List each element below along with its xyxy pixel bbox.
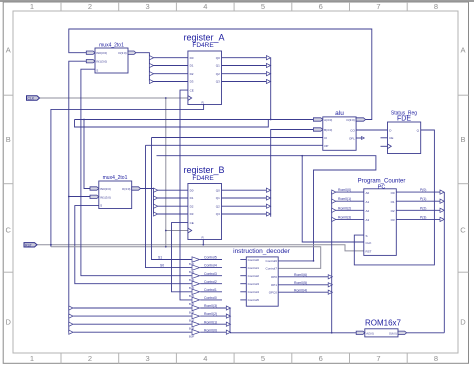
bus tap register_A D1 (149, 63, 153, 67)
wire register_A Q1 (222, 65, 267, 67)
wire Sw bit line 0 (73, 307, 191, 309)
bus tap Sw line0 (69, 306, 73, 310)
wire register_A D3 (153, 81, 188, 83)
bus tap register_A D3 (149, 79, 153, 83)
svg-text:4: 4 (203, 2, 207, 11)
wire register_A D1 (153, 65, 188, 67)
svg-text:OFL: OFL (349, 137, 355, 141)
register_B FD4RE (183, 165, 224, 240)
svg-text:CLK: CLK (28, 97, 35, 101)
wire BUF2 feed (146, 145, 192, 267)
bus tap ROM A (356, 331, 365, 334)
svg-text:CE: CE (389, 136, 393, 140)
svg-text:IN0(3:0): IN0(3:0) (100, 187, 111, 191)
svg-text:Rom0(6): Rom0(6) (294, 273, 307, 277)
buffer BUF4 (189, 281, 200, 290)
svg-text:OP0: OP0 (271, 275, 277, 279)
svg-text:O1: O1 (391, 200, 395, 204)
svg-text:CI: CI (324, 136, 327, 140)
ROM16x7 U5 (365, 319, 402, 337)
svg-text:D1: D1 (190, 196, 194, 200)
svg-text:A0: A0 (366, 191, 370, 195)
wire Status_Reg Q to PC load loop (354, 130, 434, 265)
net tap PC P(3) (440, 217, 444, 221)
svg-text:C: C (5, 226, 11, 235)
svg-text:S: S (100, 203, 102, 207)
bus tap register_B D2 (154, 204, 158, 208)
wire register_A D2 (153, 73, 188, 75)
bus tap register_B D0 (154, 188, 158, 192)
svg-text:5: 5 (261, 354, 265, 363)
wire CLK branch to register_B C pin (166, 230, 188, 232)
wire RST net from port to PC RST (37, 245, 364, 251)
Status_Reg FDE (388, 111, 421, 154)
svg-text:Control2: Control2 (248, 274, 260, 278)
svg-text:Rom0(1): Rom0(1) (204, 320, 217, 324)
bus tap mux U2 O (132, 187, 141, 190)
svg-text:1: 1 (30, 2, 34, 11)
bus tap mux U2 IN1 (90, 195, 99, 198)
svg-text:CLK: CLK (366, 241, 372, 245)
svg-text:CE: CE (190, 221, 194, 225)
wire decoder OP0 out (278, 276, 328, 278)
wire register_A Q2 (222, 73, 267, 75)
svg-text:O3: O3 (391, 218, 395, 222)
svg-text:C: C (460, 226, 466, 235)
wire A bus to alu A and mux_B IN0 (75, 119, 314, 121)
net label PC Rom inputs (338, 188, 351, 219)
wire register_B R to RST net (202, 240, 204, 245)
bus tap alu A (313, 118, 322, 121)
svg-text:FD4RE: FD4RE (192, 42, 214, 49)
svg-text:ROM16x7: ROM16x7 (365, 319, 402, 328)
svg-text:mux4_2to1: mux4_2to1 (103, 175, 128, 181)
wire BUF10 out Rom0(0) (200, 331, 226, 333)
svg-text:Q1: Q1 (216, 196, 220, 200)
wire ROM data bus vertical (331, 192, 333, 333)
svg-text:P(2): P(2) (420, 206, 426, 210)
svg-text:P(1): P(1) (420, 197, 426, 201)
wire register_B D1 (158, 197, 188, 199)
buffer BUF10 (189, 330, 200, 339)
svg-text:D: D (460, 318, 466, 327)
wire PC address bus to ROM (443, 192, 445, 333)
bus tap register_B Q3 (266, 212, 270, 216)
wire PC P(3) output (396, 218, 440, 220)
wire ROM input horizontal (230, 332, 356, 334)
svg-text:RST: RST (25, 243, 32, 247)
svg-text:CE: CE (190, 88, 194, 92)
svg-text:B(3:0): B(3:0) (324, 128, 332, 132)
wire Sw bit line 3 (73, 331, 191, 333)
wire Status_Reg CE stub (381, 137, 388, 139)
svg-text:O(3:0): O(3:0) (118, 51, 127, 55)
net label decoder OP outputs (294, 273, 307, 292)
wire CLK net horizontal (39, 97, 188, 99)
svg-text:D: D (5, 318, 11, 327)
register_A FD4RE (183, 33, 224, 105)
wire CLK branch to PC CLK and decoder (157, 156, 376, 261)
wire register_B Q0 (222, 189, 267, 191)
svg-text:A1: A1 (366, 200, 370, 204)
wire alu pin3 control (152, 137, 323, 139)
svg-text:FDE: FDE (397, 116, 411, 123)
buffer BUF8 (189, 313, 200, 322)
wire alu O feedback to mux_A IN0 (69, 29, 372, 120)
wire PC Rom(0) input (336, 191, 364, 193)
port CLK (27, 96, 40, 101)
svg-text:FD4RE: FD4RE (192, 175, 214, 182)
wire mux_A output bus to register_A D bus (136, 53, 150, 82)
wire register_A CE feed from BUF6 net (180, 90, 192, 300)
bus tap register_A Q3 (266, 79, 270, 83)
svg-text:Control6: Control6 (266, 259, 278, 263)
svg-text:2: 2 (88, 2, 92, 11)
svg-text:Control3: Control3 (248, 282, 260, 286)
wire mux_B IN1 from Sw bus (69, 196, 90, 198)
port RST (24, 243, 37, 248)
svg-text:O(6:0): O(6:0) (389, 332, 397, 336)
svg-text:A(3:0): A(3:0) (366, 332, 374, 336)
net label PC P outputs (420, 188, 426, 219)
wire CLK drop to PC CLK (302, 156, 364, 242)
wire BUF8 out Rom0(2) (200, 315, 226, 317)
bus tap Sw line2 (69, 322, 73, 326)
bus tap alu B (313, 128, 322, 131)
wire gray run to decoder pin2 (51, 247, 321, 269)
svg-text:6: 6 (319, 354, 323, 363)
svg-text:3: 3 (146, 2, 150, 11)
buffer BUF3 (189, 273, 200, 282)
svg-text:Control5: Control5 (248, 298, 260, 302)
instruction_decoder U4 (233, 248, 291, 306)
net tap Rom0(0) (226, 330, 230, 334)
wire register_A Q3 (222, 81, 267, 83)
svg-text:D0: D0 (190, 56, 194, 60)
Program_Counter PC (358, 179, 406, 256)
net tap Rom0(1) (226, 322, 230, 326)
svg-text:3: 3 (146, 354, 150, 363)
svg-text:S0: S0 (160, 263, 164, 267)
bus tap mux U1 IN0 (86, 51, 95, 54)
buffer BUF1 (189, 257, 200, 266)
wire BUF6 out Control0 (200, 299, 222, 301)
svg-text:PC: PC (378, 184, 386, 190)
wire PC P(0) output (396, 191, 440, 193)
svg-text:P(0): P(0) (420, 188, 426, 192)
svg-text:D3: D3 (190, 212, 194, 216)
svg-text:A: A (6, 46, 11, 55)
wire register_B D0 (158, 189, 188, 191)
svg-text:Control1: Control1 (248, 266, 260, 270)
svg-text:8: 8 (434, 2, 438, 11)
wire register_B Q3 (222, 213, 267, 215)
svg-text:S: S (366, 234, 368, 238)
svg-text:OP1: OP1 (271, 283, 277, 287)
buffer BUF6 (189, 297, 200, 306)
svg-text:IN1(3:0): IN1(3:0) (96, 60, 107, 64)
svg-text:OP: OP (324, 144, 328, 148)
wire register_A Q0 (222, 57, 267, 59)
svg-text:IN0(3:0): IN0(3:0) (96, 51, 107, 55)
buffer BUF2 (189, 265, 200, 274)
svg-text:Rom0(2): Rom0(2) (204, 312, 217, 316)
svg-text:Control1: Control1 (204, 288, 217, 292)
svg-text:D3: D3 (190, 80, 194, 84)
wire mux_A S to BUF3 (81, 69, 192, 276)
wire register_B Q1 (222, 197, 267, 199)
svg-text:O0: O0 (391, 191, 395, 195)
svg-text:Rom0(3): Rom0(3) (338, 215, 351, 219)
wire BUF2 out Control4 (200, 267, 222, 269)
svg-text:O2: O2 (391, 209, 395, 213)
net tap PC Rom(0) (332, 190, 336, 194)
net tap decoder OP1 (328, 283, 332, 287)
svg-text:CO: CO (350, 129, 355, 133)
wire register_B Q2 (222, 205, 267, 207)
svg-text:7: 7 (376, 2, 380, 11)
wire Status_Reg C stub (381, 145, 388, 147)
wire register_B D3 (158, 213, 188, 215)
net tap PC Rom(3) (332, 217, 336, 221)
bus tap mux U1 IN1 (86, 60, 95, 63)
svg-text:4: 4 (203, 354, 207, 363)
svg-text:D1: D1 (190, 64, 194, 68)
svg-text:Control0: Control0 (248, 258, 260, 262)
net tap decoder OPC0 (328, 290, 332, 294)
wire decoder left pin stubs (240, 260, 246, 300)
svg-text:B: B (460, 135, 465, 144)
svg-text:S: S (96, 69, 98, 73)
svg-text:5: 5 (261, 2, 265, 11)
wire BUF7 out Rom0(3) (200, 307, 226, 309)
svg-text:IN1(3:0): IN1(3:0) (100, 195, 111, 199)
bus tap register_B Q0 (266, 188, 270, 192)
wire register_A R to RST net (51, 105, 204, 247)
svg-text:instruction_decoder: instruction_decoder (233, 248, 291, 255)
svg-text:Q2: Q2 (216, 204, 220, 208)
bus tap register_B D3 (154, 212, 158, 216)
svg-text:Rom0(0): Rom0(0) (204, 328, 217, 332)
svg-text:Rom0(5): Rom0(5) (294, 281, 307, 285)
net tap Rom0(3) (226, 306, 230, 310)
svg-text:D2: D2 (190, 204, 194, 208)
bus tap ROM O (398, 331, 407, 334)
svg-text:Rom0(3): Rom0(3) (204, 304, 217, 308)
wire PC Rom(3) input (336, 218, 364, 220)
svg-text:Q1: Q1 (216, 64, 220, 68)
svg-text:2: 2 (88, 354, 92, 363)
net tap PC Rom(2) (332, 208, 336, 212)
wire BUF1 feed (152, 138, 192, 260)
bus tap Sw line1 (69, 314, 73, 318)
wire mux_B output bus to register_B D bus (140, 189, 153, 215)
wire register_A output bus down to node (270, 58, 272, 120)
net tap PC Rom(1) (332, 199, 336, 203)
alu OFL open stub (356, 137, 364, 140)
wire decoder pin Control6 stub (278, 260, 313, 262)
wire BUF9 out Rom0(1) (200, 323, 226, 325)
buffer BUF5 (189, 289, 200, 298)
svg-text:mux4_2to1: mux4_2to1 (99, 42, 124, 48)
bus tap mux U2 IN0 (90, 187, 99, 190)
svg-text:Q3: Q3 (216, 80, 220, 84)
svg-text:OPC0: OPC0 (269, 291, 278, 295)
svg-text:Control2: Control2 (204, 280, 217, 284)
bus tap register_B Q1 (266, 196, 270, 200)
wire register_B CE to BUF5 (172, 223, 192, 292)
svg-text:Rom0(1): Rom0(1) (338, 197, 351, 201)
svg-text:O(3:0): O(3:0) (122, 187, 131, 191)
wire alu CO to Status_Reg D (356, 129, 387, 131)
svg-text:A3: A3 (366, 218, 370, 222)
svg-text:Q0: Q0 (216, 188, 220, 192)
svg-text:7: 7 (376, 354, 380, 363)
svg-text:Control3: Control3 (204, 272, 217, 276)
svg-text:Control4: Control4 (248, 290, 260, 294)
svg-text:Q3: Q3 (216, 212, 220, 216)
svg-text:S1: S1 (158, 255, 162, 259)
wire PC P(2) output (396, 209, 440, 211)
bus tap register_A Q2 (266, 72, 270, 76)
svg-text:Control7: Control7 (266, 267, 278, 271)
svg-text:8: 8 (434, 354, 438, 363)
net tap decoder OP0 (328, 275, 332, 279)
bus tap register_B Q2 (266, 204, 270, 208)
wire PC P(1) output (396, 200, 440, 202)
wire ROM address bus vertical (229, 308, 231, 333)
wire mux_B S to BUF4 (75, 206, 192, 284)
bus tap register_B D1 (154, 196, 158, 200)
net label Control outputs (204, 256, 217, 333)
wire BUF5 out Control1 (200, 291, 222, 293)
svg-text:B: B (6, 135, 11, 144)
net tap PC P(1) (440, 199, 444, 203)
svg-text:Rom0(4): Rom0(4) (294, 288, 307, 292)
wire BUF3 out Control3 (200, 275, 222, 277)
wire PC Rom(2) input (336, 209, 364, 211)
svg-text:Control4: Control4 (204, 264, 217, 268)
wire mux_B IN0 drop (84, 120, 90, 189)
svg-text:O(3:0): O(3:0) (346, 118, 355, 122)
net tap PC P(2) (440, 208, 444, 212)
wire ROM output to bus (407, 332, 445, 334)
svg-text:Control5: Control5 (204, 256, 217, 260)
alu U3 (323, 110, 356, 150)
wire decoder OPC0 out (278, 291, 328, 293)
mux U2 mux4_2to1 (99, 175, 132, 208)
wire register_A D0 (153, 57, 188, 59)
wire decoder OP1 out (278, 284, 328, 286)
buffer BUF9 (189, 322, 200, 331)
svg-text:A2: A2 (366, 209, 370, 213)
bus tap mux U1 O (128, 51, 136, 54)
wire parallel feedback jog B row (75, 120, 269, 128)
bus tap register_A Q0 (266, 56, 270, 60)
svg-text:P(3): P(3) (420, 215, 426, 219)
svg-text:RST: RST (366, 250, 372, 254)
bus tap register_A D2 (149, 72, 153, 76)
net tap Rom0(2) (226, 314, 230, 318)
svg-text:6: 6 (319, 2, 323, 11)
wire Sw bit line 2 (73, 323, 191, 325)
mux U1 mux4_2to1 (95, 42, 128, 73)
wire BUF1 out Control5 (200, 259, 222, 261)
wire alu pin4 control (146, 144, 323, 146)
wire Sw bus vertical to mux_A IN1 (69, 61, 87, 332)
svg-text:A: A (460, 46, 465, 55)
bus tap alu O (356, 118, 365, 121)
svg-text:Rom0(2): Rom0(2) (338, 206, 351, 210)
wire register_B D2 (158, 205, 188, 207)
svg-text:A(3:0): A(3:0) (324, 118, 332, 122)
buffer BUF7 (189, 305, 200, 314)
svg-text:BUF: BUF (189, 335, 195, 339)
net tap PC P(0) (440, 190, 444, 194)
svg-text:Q2: Q2 (216, 72, 220, 76)
wire CLK net vertical drop to register_B clock (165, 98, 167, 247)
svg-text:D0: D0 (190, 188, 194, 192)
svg-text:D2: D2 (190, 72, 194, 76)
svg-text:Control0: Control0 (204, 296, 217, 300)
svg-text:register_B: register_B (183, 165, 224, 175)
wire register_B out bus to alu B (271, 130, 314, 217)
wire PC Rom(1) input (336, 200, 364, 202)
svg-text:Q0: Q0 (216, 56, 220, 60)
wire BUF4 out Control2 (200, 283, 222, 285)
wire Sw bit line 1 (73, 315, 191, 317)
bus tap register_A Q1 (266, 63, 270, 67)
bus tap register_A D0 (149, 56, 153, 60)
svg-text:1: 1 (30, 354, 34, 363)
svg-text:alu: alu (335, 110, 344, 117)
svg-text:Rom0(0): Rom0(0) (338, 188, 351, 192)
bus tap Sw line3 (69, 330, 73, 334)
